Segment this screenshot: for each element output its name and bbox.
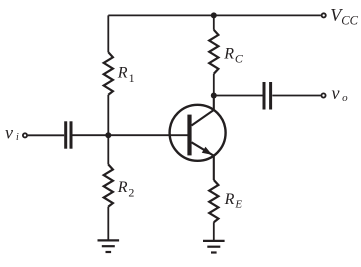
ground right [203, 241, 225, 253]
transistor Q1 body circle [170, 105, 226, 161]
wire output left [214, 95, 263, 97]
svg-text:vi: vi [5, 123, 19, 143]
wire R1 bottom lead [107, 95, 109, 135]
resistor R1 [104, 52, 113, 95]
node base junction [105, 132, 111, 138]
svg-text:R2: R2 [117, 179, 135, 200]
svg-text:VCC: VCC [330, 5, 358, 27]
wire R2 ground lead [107, 207, 109, 241]
terminal VCC [322, 13, 326, 17]
wire base [73, 134, 188, 136]
wire top rail [108, 14, 321, 16]
wire output right [272, 95, 321, 97]
transistor Q1 base bar [187, 115, 191, 156]
svg-text:R1: R1 [117, 65, 135, 86]
transistor Q1 collector lead [192, 96, 214, 126]
svg-text:RC: RC [223, 46, 244, 66]
resistor R2 [104, 165, 113, 207]
wire vi to capacitor [28, 134, 64, 136]
transistor Q1 emitter arrowhead [202, 147, 212, 155]
wire RC bottom lead [213, 74, 215, 96]
wire RC top lead [213, 15, 215, 29]
wire R2 top lead [107, 135, 109, 164]
resistor RE [209, 180, 218, 222]
node collector junction [211, 93, 217, 99]
node top junction [211, 12, 217, 18]
wire RE ground lead [213, 222, 215, 241]
ground left [98, 240, 120, 252]
terminal vi [23, 133, 27, 137]
svg-text:RE: RE [224, 191, 243, 211]
svg-text:vo: vo [332, 83, 349, 104]
resistor RC [209, 30, 218, 74]
terminal vo [321, 93, 325, 97]
transistor Q1 emitter lead [192, 142, 214, 180]
capacitor C1 input [66, 121, 71, 148]
wire R1 top lead [107, 15, 109, 52]
capacitor C2 output [264, 82, 271, 110]
